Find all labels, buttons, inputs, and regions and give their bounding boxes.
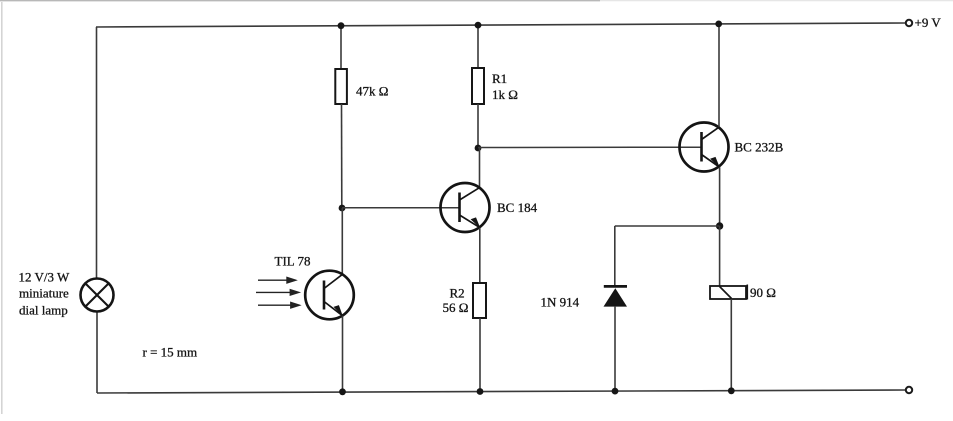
wire diode cathode vertical — [614, 226, 616, 287]
svg-text:+9 V: +9 V — [915, 15, 942, 30]
svg-text:r = 15 mm: r = 15 mm — [143, 345, 198, 360]
svg-text:BC 232B: BC 232B — [735, 140, 784, 155]
node BC232B emitter / diode / relay — [716, 222, 723, 229]
node R2 / ground rail — [477, 388, 484, 395]
svg-text:90 Ω: 90 Ω — [750, 285, 776, 300]
diode 1N 914 — [604, 286, 628, 306]
light arrow 3 — [258, 303, 299, 308]
wire +9V top rail — [96, 23, 906, 27]
resistor R2 — [473, 283, 486, 318]
wire ground bottom rail — [97, 390, 906, 393]
resistor 47k — [335, 69, 347, 104]
wire BC184 base — [342, 207, 461, 209]
phototransistor TIL 78 — [305, 271, 354, 320]
terminal ground — [906, 387, 912, 393]
wire diode anode to ground rail — [614, 306, 616, 391]
svg-text:56 Ω: 56 Ω — [443, 300, 469, 315]
node top rail / 47k — [338, 22, 345, 29]
wire BC232B base — [478, 146, 701, 148]
wire BC232B emitter to node — [719, 167, 721, 226]
light arrow 2 — [256, 290, 299, 295]
node 47k / TIL78 / BC184 base — [339, 205, 346, 212]
wire node to TIL78 collector — [341, 208, 343, 275]
wire left branch upper (lamp to +9V) — [96, 27, 98, 279]
wire BC184 emitter to R2 — [479, 228, 481, 283]
wire R1 bottom to node — [477, 104, 479, 148]
node top rail / R1 — [475, 22, 482, 29]
wire TIL78 emitter to ground rail — [342, 316, 344, 392]
node R1 / BC184 collector / BC232B base — [475, 145, 482, 152]
resistor R1 — [472, 68, 484, 104]
wire left branch lower (lamp to ground) — [96, 312, 98, 394]
wire node to BC184 collector — [479, 148, 481, 188]
lamp LP1 (12 V/3 W miniature dial lamp) — [81, 279, 114, 312]
wire diode branch horizontal — [615, 225, 720, 227]
wire relay coil top — [719, 226, 721, 286]
relay coil 90 ohm — [710, 285, 747, 300]
terminal +9V — [906, 20, 912, 26]
node top rail / BC232B collector — [715, 21, 722, 28]
node relay / ground rail — [728, 387, 735, 394]
svg-text:R2: R2 — [450, 286, 465, 301]
wire R1 top — [477, 25, 479, 68]
transistor BC 232B — [680, 123, 729, 172]
wire 47k top — [340, 26, 342, 70]
scan edge top — [0, 0, 600, 2]
svg-text:12 V/3 W: 12 V/3 W — [19, 270, 71, 285]
svg-text:R1: R1 — [492, 71, 507, 86]
wire R2 bottom to ground rail — [479, 318, 481, 392]
node TIL78 / ground rail — [339, 388, 346, 395]
wire relay coil bottom to ground rail — [730, 299, 732, 391]
light arrow 1 — [258, 278, 296, 283]
node diode / ground rail — [612, 388, 619, 395]
svg-text:1k Ω: 1k Ω — [492, 87, 518, 102]
wire BC232B collector to +9V rail — [718, 24, 720, 127]
svg-text:BC 184: BC 184 — [497, 200, 538, 215]
svg-text:1N 914: 1N 914 — [541, 295, 580, 310]
transistor BC 184 — [441, 183, 490, 232]
svg-text:miniature: miniature — [19, 286, 69, 301]
svg-text:47k Ω: 47k Ω — [356, 84, 388, 99]
svg-text:dial lamp: dial lamp — [19, 303, 68, 318]
svg-text:TIL 78: TIL 78 — [275, 254, 311, 269]
scan page edge — [1, 2, 3, 414]
wire 47k bottom to node — [341, 104, 343, 208]
